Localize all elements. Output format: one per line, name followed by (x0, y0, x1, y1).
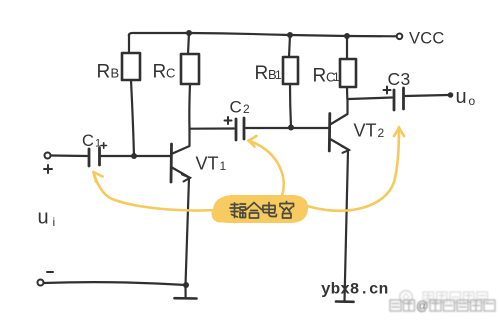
svg-text:C: C (166, 66, 175, 81)
svg-text:R: R (313, 66, 327, 87)
svg-text:C: C (388, 69, 401, 89)
svg-text:1: 1 (333, 70, 340, 84)
svg-text:u: u (456, 86, 467, 108)
svg-text:1: 1 (95, 138, 101, 150)
svg-text:1: 1 (220, 159, 227, 173)
svg-text:VT: VT (196, 154, 219, 174)
svg-text:R: R (153, 62, 167, 83)
svg-text:2: 2 (378, 126, 385, 140)
svg-text:i: i (53, 215, 56, 229)
svg-text:ybx8.cn: ybx8.cn (321, 281, 388, 299)
svg-text:B: B (111, 66, 120, 81)
svg-text:@: @ (416, 299, 429, 313)
svg-text:1: 1 (275, 68, 282, 82)
svg-text:VT: VT (354, 121, 377, 141)
svg-text:o: o (469, 94, 476, 108)
svg-text:C: C (82, 132, 94, 150)
svg-text:R: R (97, 62, 111, 83)
svg-text:C: C (230, 98, 242, 117)
svg-text:u: u (38, 207, 49, 229)
svg-text:VCC: VCC (409, 30, 444, 48)
svg-text:2: 2 (243, 102, 250, 116)
svg-text:R: R (255, 63, 269, 84)
svg-text:3: 3 (401, 69, 411, 89)
